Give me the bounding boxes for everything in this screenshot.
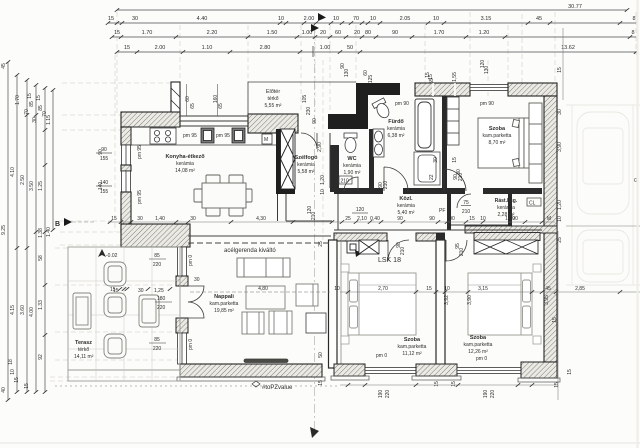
svg-text:4.15: 4.15 — [10, 305, 16, 315]
nightstands sw — [341, 264, 349, 272]
svg-text:220: 220 — [157, 305, 166, 311]
svg-text:220: 220 — [153, 346, 162, 352]
svg-text:30: 30 — [433, 157, 439, 163]
door wc — [344, 177, 358, 191]
svg-text:45: 45 — [545, 286, 551, 292]
interior dim 4.80 — [190, 291, 330, 293]
door entrance — [301, 133, 317, 149]
svg-text:pm 90: pm 90 — [480, 101, 494, 107]
svg-text:2.50: 2.50 — [20, 175, 26, 185]
svg-text:pm 95: pm 95 — [137, 190, 143, 204]
svg-text:180: 180 — [157, 296, 166, 302]
svg-text:4.00: 4.00 — [29, 307, 35, 317]
svg-text:8,70 m²: 8,70 m² — [489, 140, 506, 146]
west wall pier 1 — [176, 276, 188, 286]
svg-text:1.70: 1.70 — [434, 30, 445, 36]
svg-text:1,25: 1,25 — [154, 288, 164, 294]
svg-text:Előtér: Előtér — [266, 89, 281, 95]
svg-text:50: 50 — [347, 45, 353, 51]
cabinet right — [296, 284, 318, 306]
svg-text:5,58 m²: 5,58 m² — [298, 169, 315, 175]
sink 1 — [201, 128, 214, 143]
coffee table — [246, 286, 285, 309]
kitchen counter — [131, 127, 276, 145]
svg-text:9.25: 9.25 — [1, 225, 7, 235]
svg-text:pm 0: pm 0 — [376, 353, 387, 359]
wall bathroom north-west L — [356, 83, 400, 95]
svg-text:190: 190 — [483, 390, 489, 399]
svg-text:Szoba: Szoba — [404, 337, 421, 343]
svg-text:60: 60 — [185, 96, 191, 102]
svg-text:30: 30 — [132, 16, 138, 22]
faint scan line — [0, 442, 640, 444]
svg-text:2.80: 2.80 — [260, 45, 271, 51]
wardrobe crossed box bedroom2 — [474, 240, 538, 254]
svg-text:Szoba: Szoba — [489, 126, 506, 132]
bath washbasins — [373, 129, 384, 157]
svg-text:65: 65 — [190, 103, 196, 109]
svg-text:Szélfogó: Szélfogó — [295, 155, 319, 161]
svg-text:70: 70 — [353, 16, 359, 22]
living room north beam (dashed) — [188, 236, 331, 243]
svg-text:70: 70 — [42, 111, 48, 117]
svg-text:kerámia: kerámia — [387, 126, 405, 132]
svg-text:1.25: 1.25 — [38, 181, 44, 191]
svg-text:15: 15 — [567, 369, 573, 375]
svg-text:14,08 m²: 14,08 m² — [175, 168, 195, 174]
svg-text:130: 130 — [344, 69, 350, 78]
svg-text:10: 10 — [333, 16, 339, 22]
terrace armchair 3 — [104, 334, 126, 358]
svg-text:45: 45 — [1, 63, 7, 69]
svg-text:pm 90: pm 90 — [395, 101, 409, 107]
svg-text:12,26 m²: 12,26 m² — [468, 349, 488, 355]
svg-text:3,95: 3,95 — [544, 295, 550, 305]
svg-text:30: 30 — [190, 216, 196, 222]
left vertical dimension chains — [8, 62, 53, 400]
svg-text:15: 15 — [24, 383, 30, 389]
svg-text:M: M — [547, 216, 551, 222]
svg-text:kerámia: kerámia — [343, 163, 361, 169]
svg-text:kerámia: kerámia — [176, 161, 194, 167]
svg-text:15: 15 — [552, 317, 558, 323]
svg-text:kerámia: kerámia — [497, 205, 515, 211]
svg-text:210: 210 — [341, 179, 350, 185]
svg-text:65: 65 — [218, 103, 224, 109]
svg-text:1,20: 1,20 — [320, 175, 326, 185]
wc door height box — [339, 176, 352, 184]
svg-text:2,70: 2,70 — [378, 286, 388, 292]
svg-text:10: 10 — [370, 16, 376, 22]
bath shower cabinet — [414, 152, 440, 185]
kitchen window dim lines — [187, 84, 218, 116]
svg-text:210: 210 — [311, 212, 317, 221]
svg-text:1.33: 1.33 — [38, 300, 44, 310]
tv board — [244, 359, 288, 363]
wall east upper — [544, 96, 557, 231]
svg-text:15: 15 — [114, 30, 120, 36]
svg-text:85: 85 — [154, 253, 160, 259]
dim row above walls y221 — [108, 221, 555, 223]
svg-text:15: 15 — [318, 380, 324, 386]
wall south: bedroom1 corner bars and windows — [334, 364, 365, 376]
west wall glazing lower — [178, 333, 187, 364]
svg-text:kam.parketta: kam.parketta — [398, 344, 427, 350]
section line A (dash-dot) — [314, 30, 316, 433]
svg-text:2.20: 2.20 — [207, 30, 218, 36]
wall bath/bedroom separation — [442, 96, 447, 190]
svg-text:4.40: 4.40 — [197, 16, 208, 22]
svg-text:30: 30 — [137, 216, 143, 222]
dimension row 4 texts — [124, 45, 575, 51]
terrace bench — [73, 293, 91, 329]
wardrobe crossed box bedroom1 — [359, 240, 379, 254]
svg-text:1.10: 1.10 — [202, 45, 213, 51]
svg-text:20: 20 — [354, 30, 360, 36]
svg-text:15: 15 — [557, 67, 563, 73]
svg-text:220: 220 — [385, 390, 391, 399]
svg-text:130: 130 — [484, 66, 490, 75]
svg-text:30: 30 — [456, 169, 462, 175]
svg-text:140: 140 — [100, 180, 109, 186]
svg-text:3,92: 3,92 — [444, 295, 450, 305]
svg-text:230: 230 — [306, 107, 312, 116]
svg-text:6,38 m²: 6,38 m² — [388, 133, 405, 139]
wall kitchen top — [121, 112, 180, 127]
section marker arrows — [318, 13, 326, 21]
svg-text:1.00: 1.00 — [302, 30, 313, 36]
dim line through bedrooms — [340, 291, 640, 293]
side square — [306, 313, 326, 333]
rotated small dims — [98, 60, 573, 399]
door bathroom — [384, 167, 408, 191]
svg-text:30.77: 30.77 — [568, 4, 582, 10]
chimney shaft — [276, 129, 281, 194]
svg-text:3.50: 3.50 — [29, 181, 35, 191]
svg-text:160: 160 — [213, 95, 219, 104]
svg-text:105: 105 — [302, 95, 308, 104]
svg-text:Rást.hsg.: Rást.hsg. — [495, 198, 518, 204]
door bedroom2 — [446, 240, 467, 261]
window kitchen left 2 — [122, 171, 131, 192]
svg-text:2.00: 2.00 — [304, 16, 315, 22]
svg-text:155: 155 — [100, 189, 109, 195]
terrace armchair 2 — [104, 293, 126, 317]
svg-text:1.70: 1.70 — [15, 95, 21, 105]
bedroom1 wardrobe — [447, 97, 459, 145]
svg-text:92: 92 — [38, 354, 44, 360]
svg-text:15: 15 — [14, 377, 20, 383]
svg-text:85: 85 — [29, 101, 35, 107]
wall kitchen top-left pier — [171, 82, 180, 115]
svg-text:220: 220 — [153, 262, 162, 268]
svg-text:M: M — [264, 137, 268, 143]
svg-text:58: 58 — [38, 255, 44, 261]
wall bedrooms north black bars — [334, 233, 387, 241]
svg-text:80: 80 — [365, 30, 371, 36]
svg-text:15: 15 — [434, 381, 440, 387]
wall kitchen left mid — [121, 165, 131, 171]
svg-text:B: B — [55, 221, 60, 228]
svg-text:Szoba: Szoba — [470, 335, 487, 341]
svg-text:90: 90 — [397, 216, 403, 222]
svg-text:5,55 m²: 5,55 m² — [265, 103, 282, 109]
svg-text:Terasz: Terasz — [75, 340, 92, 346]
svg-text:15: 15 — [108, 16, 114, 22]
window bedroom1 south — [365, 368, 416, 374]
wall kitchen bottom / terrace corner — [121, 224, 190, 247]
svg-text:1,40: 1,40 — [155, 216, 165, 222]
svg-text:1.00: 1.00 — [320, 45, 331, 51]
wall south-east corner — [521, 362, 557, 378]
svg-text:kerámia: kerámia — [397, 203, 415, 209]
wall kitchen left upper — [121, 127, 131, 145]
dining table — [194, 175, 252, 216]
svg-text:8: 8 — [632, 16, 635, 22]
wall east lower — [544, 231, 557, 362]
svg-text:3,90: 3,90 — [467, 295, 473, 305]
svg-text:210: 210 — [400, 247, 406, 256]
window kitchen left 1 — [122, 145, 131, 165]
svg-text:1,55: 1,55 — [452, 72, 458, 82]
svg-text:10: 10 — [278, 16, 284, 22]
armchair a — [242, 312, 264, 334]
svg-text:25: 25 — [345, 216, 351, 222]
wall stub left of WC — [328, 114, 360, 129]
svg-text:1.50: 1.50 — [267, 30, 278, 36]
door bedroom1 — [388, 240, 409, 261]
svg-text:18: 18 — [8, 359, 14, 365]
kitchen room outline thin — [131, 116, 332, 221]
svg-text:10: 10 — [557, 216, 563, 222]
construction guide lines — [50, 12, 636, 381]
wall hall north (y190) — [334, 188, 383, 194]
wall between bedrooms — [436, 240, 445, 368]
svg-text:kam.parketta: kam.parketta — [464, 342, 493, 348]
faint garage outline right side — [566, 105, 640, 285]
svg-text:2,85: 2,85 — [575, 286, 585, 292]
wall living/bedroom1 separation — [329, 240, 338, 368]
svg-text:210: 210 — [462, 209, 471, 215]
svg-text:15: 15 — [27, 93, 33, 99]
terrace armchair 1 — [104, 262, 126, 286]
svg-text:45: 45 — [536, 16, 542, 22]
svg-text:14,11 m²: 14,11 m² — [74, 354, 94, 360]
wall band above bedroom2 — [465, 226, 557, 233]
wall pantry west — [447, 194, 451, 230]
svg-text:10: 10 — [10, 369, 16, 375]
wall WC west — [330, 145, 339, 192]
svg-text:pm 95: pm 95 — [216, 133, 230, 139]
svg-text:210: 210 — [459, 248, 465, 257]
svg-text:kerámia: kerámia — [297, 162, 315, 168]
svg-text:90: 90 — [449, 216, 455, 222]
svg-text:15: 15 — [111, 216, 117, 222]
svg-text:4,30: 4,30 — [256, 216, 266, 222]
bottom dim ticks under bedrooms — [55, 385, 558, 386]
armchair b — [269, 311, 292, 334]
svg-text:85: 85 — [154, 337, 160, 343]
svg-text:3.60: 3.60 — [20, 305, 26, 315]
svg-text:2.00: 2.00 — [155, 45, 166, 51]
svg-text:pm 0: pm 0 — [188, 255, 194, 266]
svg-text:40: 40 — [1, 387, 7, 393]
wall bedroom1 north-east — [508, 83, 557, 96]
wall entrance top bar — [248, 114, 298, 133]
wall bathroom north lintel — [415, 83, 470, 96]
svg-text:20: 20 — [320, 30, 326, 36]
nightstands se — [533, 264, 541, 272]
svg-text:10: 10 — [480, 216, 486, 222]
svg-text:15: 15 — [469, 216, 475, 222]
svg-text:1.38: 1.38 — [38, 228, 44, 238]
svg-text:térkő: térkő — [78, 347, 89, 353]
svg-text:15: 15 — [36, 95, 42, 101]
door pantry — [457, 194, 471, 208]
svg-text:15: 15 — [124, 45, 130, 51]
svg-text:10: 10 — [320, 189, 326, 195]
svg-text:2,90: 2,90 — [317, 142, 323, 152]
door bedroom north — [444, 169, 466, 191]
svg-text:55: 55 — [429, 78, 435, 84]
svg-text:WC: WC — [347, 156, 356, 162]
terrace outline — [68, 247, 180, 381]
bathtub — [415, 99, 434, 151]
svg-text:15: 15 — [113, 288, 119, 294]
svg-text:4,80: 4,80 — [258, 286, 268, 292]
svg-text:-0.02: -0.02 — [106, 253, 118, 259]
door terrace double — [188, 286, 204, 318]
svg-text:pm 0: pm 0 — [476, 356, 487, 362]
window bedroom2 south — [457, 368, 521, 374]
svg-text:térkő: térkő — [267, 96, 278, 102]
closet CL — [527, 198, 541, 206]
bed bedroom se — [468, 273, 532, 335]
svg-text:pm 0: pm 0 — [188, 339, 194, 350]
svg-text:pm 95: pm 95 — [137, 145, 143, 159]
svg-text:90: 90 — [101, 147, 107, 153]
svg-text:kam.parketta: kam.parketta — [210, 301, 239, 307]
svg-text:10: 10 — [334, 286, 340, 292]
svg-text:Konyha-étkező: Konyha-étkező — [165, 154, 205, 160]
svg-text:19,85 m²: 19,85 m² — [214, 308, 234, 314]
svg-text:1.20: 1.20 — [479, 30, 490, 36]
dimension row 3 texts — [114, 30, 635, 36]
svg-text:3,90: 3,90 — [557, 142, 563, 152]
svg-text:75: 75 — [463, 200, 469, 206]
wall kitchen left lower — [121, 192, 131, 232]
sofa — [237, 258, 290, 277]
svg-text:kam.parketta: kam.parketta — [483, 133, 512, 139]
svg-text:4.10: 4.10 — [10, 167, 16, 177]
svg-text:120: 120 — [356, 207, 365, 213]
svg-text:Közl.: Közl. — [399, 196, 413, 202]
svg-text:1.70: 1.70 — [142, 30, 153, 36]
window bedroom1 north — [470, 85, 508, 91]
wall living room south (hatched) — [180, 364, 322, 377]
svg-text:30: 30 — [138, 288, 144, 294]
right vertical dim line — [558, 28, 563, 400]
svg-text:2,10: 2,10 — [357, 216, 367, 222]
closet box LSK — [347, 241, 359, 253]
svg-text:60: 60 — [335, 30, 341, 36]
svg-text:155: 155 — [100, 156, 109, 162]
wall WC/bath separation — [369, 129, 374, 191]
dimension row 2 texts — [108, 16, 636, 22]
section arrow bottom — [310, 427, 319, 438]
svg-text:220: 220 — [490, 390, 496, 399]
svg-text:LSK 18: LSK 18 — [378, 257, 401, 264]
bed bedroom sw — [348, 273, 416, 335]
stove — [150, 128, 176, 144]
svg-text:15: 15 — [425, 72, 431, 78]
svg-text:1,90 m²: 1,90 m² — [344, 170, 361, 176]
svg-text:acélgerenda kiváltó: acélgerenda kiváltó — [224, 248, 276, 254]
svg-text:Fürdő: Fürdő — [388, 119, 404, 125]
svg-text:210: 210 — [383, 181, 389, 190]
svg-text:90: 90 — [429, 216, 435, 222]
svg-text:1,20: 1,20 — [557, 200, 563, 210]
svg-text:pm 95: pm 95 — [183, 133, 197, 139]
svg-text:11,12 m²: 11,12 m² — [402, 351, 422, 357]
west wall pier 2 — [176, 318, 188, 333]
bedroom1 bed — [478, 103, 542, 183]
svg-text:90: 90 — [340, 63, 346, 69]
west wall glazing upper — [178, 247, 187, 276]
sink 2 — [232, 128, 245, 143]
svg-text:50: 50 — [318, 352, 324, 358]
svg-text:15: 15 — [426, 286, 432, 292]
svg-text:1.40: 1.40 — [46, 227, 52, 237]
svg-text:CL: CL — [529, 201, 536, 207]
svg-text:1,90: 1,90 — [505, 216, 515, 222]
appliance M — [262, 134, 272, 144]
svg-text:15: 15 — [451, 381, 457, 387]
svg-text:30: 30 — [32, 117, 38, 123]
svg-text:85: 85 — [38, 105, 44, 111]
hall outline — [334, 194, 542, 230]
svg-text:10: 10 — [444, 286, 450, 292]
svg-text:25: 25 — [318, 241, 324, 247]
svg-text:70: 70 — [24, 109, 30, 115]
svg-text:30: 30 — [557, 109, 563, 115]
svg-text:90: 90 — [392, 30, 398, 36]
porch edge line — [248, 82, 356, 115]
svg-text:3,15: 3,15 — [478, 286, 488, 292]
svg-text:10: 10 — [433, 16, 439, 22]
wc fixture — [344, 133, 357, 153]
dimension chain row 1 (overall 30.77) — [108, 10, 636, 52]
svg-text:30: 30 — [194, 277, 200, 283]
bath toilet — [372, 98, 392, 120]
svg-text:3.15: 3.15 — [481, 16, 492, 22]
svg-text:90: 90 — [312, 118, 318, 124]
svg-text:Nappali: Nappali — [214, 294, 234, 300]
svg-text:22: 22 — [429, 174, 435, 180]
bottom hash label — [252, 381, 260, 387]
svg-text:15: 15 — [452, 157, 458, 163]
svg-text:125: 125 — [368, 75, 374, 84]
svg-text:PF: PF — [439, 208, 445, 214]
terrace chair right — [139, 295, 159, 327]
svg-text:2.05: 2.05 — [400, 16, 411, 22]
svg-text:190: 190 — [378, 390, 384, 399]
